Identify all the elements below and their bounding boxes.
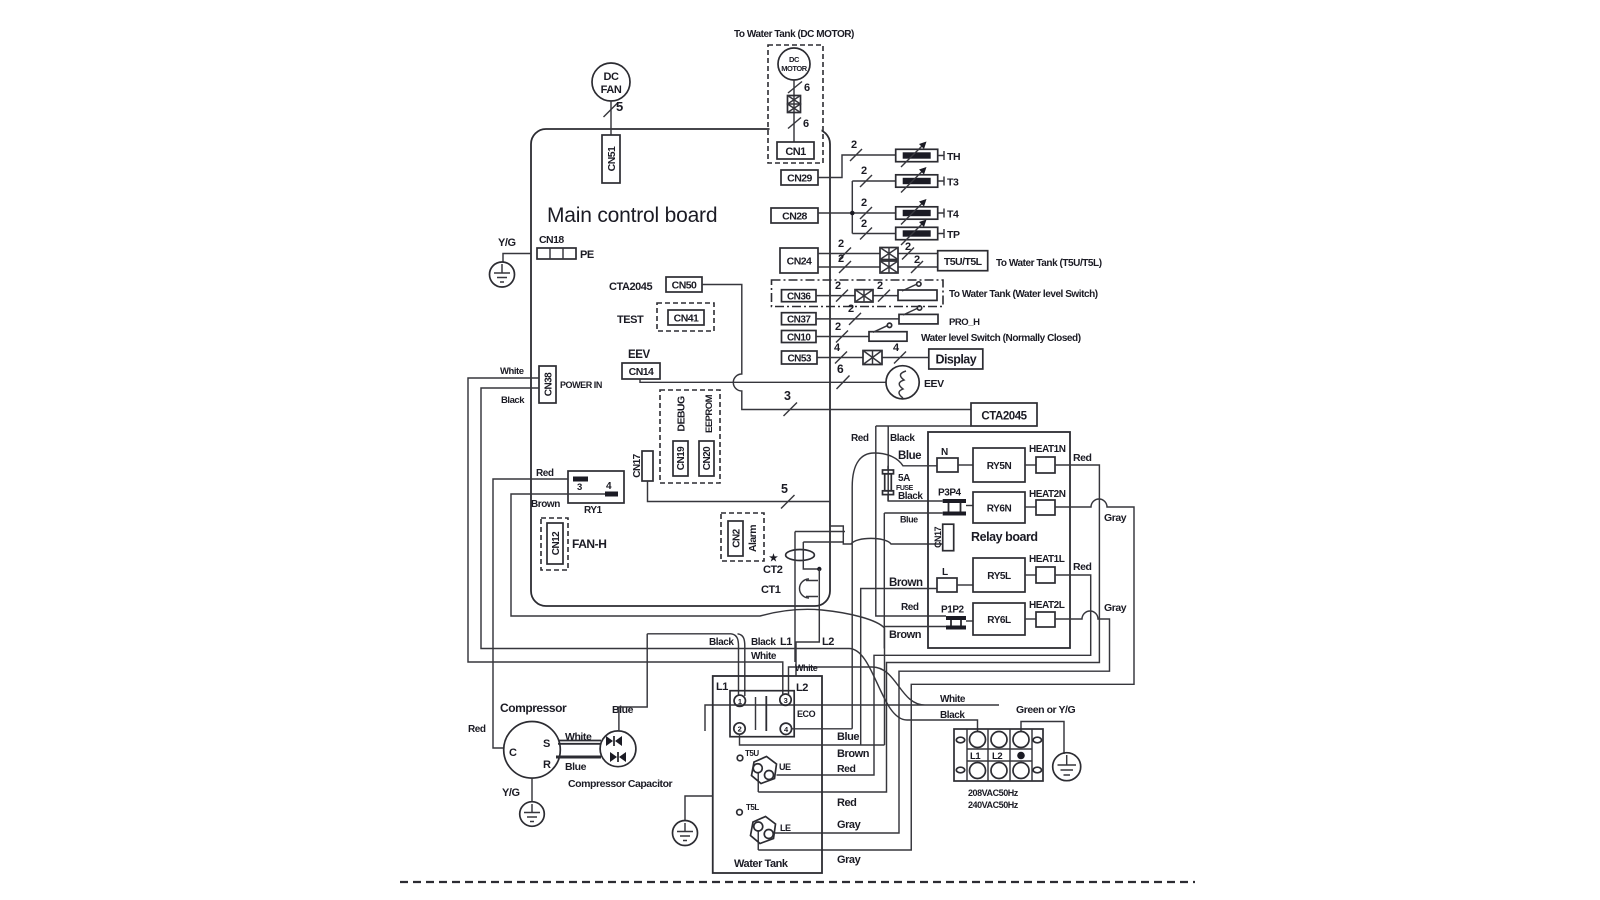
wire DC MOTOR to CN1 bbox=[793, 80, 795, 142]
connector CN36 bbox=[782, 290, 817, 303]
connector CN29 bbox=[781, 170, 818, 185]
wire CN24 upper to T5U bbox=[818, 253, 938, 255]
relay board outline bbox=[928, 432, 1070, 648]
connector CN12 (FAN-H) bbox=[541, 518, 568, 570]
svg-text:Water Tank: Water Tank bbox=[734, 858, 789, 870]
dashed page divider bbox=[400, 881, 1195, 883]
wire DC FAN to CN51 bbox=[610, 101, 612, 135]
wire RY1 pin4 brown to P1P2 (lower curve across bundle) bbox=[511, 494, 885, 745]
connector plug (water level switch) bbox=[855, 290, 873, 302]
svg-text:2: 2 bbox=[861, 165, 867, 177]
wire compressor R blue to capacitor bbox=[556, 756, 601, 759]
wire ECO4 blue bbox=[792, 728, 853, 730]
svg-text:Compressor: Compressor bbox=[500, 701, 567, 715]
svg-text:White: White bbox=[940, 694, 966, 705]
main control board outline bbox=[531, 129, 830, 606]
slash 2-wire mark bbox=[860, 228, 872, 240]
svg-text:4: 4 bbox=[606, 481, 612, 492]
terminal HEAT1L bbox=[1029, 554, 1065, 583]
connector P3P4 bbox=[938, 488, 966, 516]
wire HEAT1N red to tank UE bbox=[758, 465, 1099, 792]
svg-text:RY1: RY1 bbox=[584, 505, 603, 516]
svg-text:P1P2: P1P2 bbox=[941, 605, 965, 616]
svg-text:CN12: CN12 bbox=[551, 531, 562, 555]
connector CN18 bbox=[537, 234, 576, 259]
svg-text:6: 6 bbox=[837, 362, 844, 376]
svg-text:UE: UE bbox=[779, 762, 791, 772]
svg-text:Black: Black bbox=[898, 491, 923, 502]
svg-text:2: 2 bbox=[835, 280, 841, 292]
wire CN17 to relay board CN17 (5 wires) bbox=[648, 481, 943, 544]
connector CN17 (main board) bbox=[632, 451, 653, 481]
svg-text:FAN-H: FAN-H bbox=[572, 537, 606, 551]
svg-text:3: 3 bbox=[577, 482, 582, 493]
svg-text:Red: Red bbox=[901, 602, 919, 613]
slash 2-wire mark bbox=[850, 149, 862, 161]
heater element UE bbox=[752, 757, 777, 784]
slash 2-wire mark bbox=[878, 290, 890, 302]
slash 6-wire mark bbox=[788, 82, 802, 94]
svg-text:5: 5 bbox=[616, 99, 623, 114]
slash 2-wire mark bbox=[836, 290, 848, 302]
slash 2-wire mark bbox=[860, 175, 872, 187]
wire capacitor blue to L1 bus bbox=[619, 634, 647, 731]
DC FAN motor M1 bbox=[592, 63, 630, 101]
svg-text:2: 2 bbox=[905, 241, 911, 253]
svg-text:Gray: Gray bbox=[1104, 602, 1127, 614]
wire CT1 conductor bbox=[795, 532, 845, 663]
relay RY5L bbox=[973, 558, 1025, 592]
svg-text:RY6L: RY6L bbox=[987, 615, 1011, 626]
slash 5-wire bus mark bbox=[604, 103, 618, 117]
svg-text:2: 2 bbox=[877, 280, 883, 292]
svg-text:Brown: Brown bbox=[837, 748, 870, 760]
svg-text:EEV: EEV bbox=[628, 349, 650, 361]
wire RY5L to HEAT1L bbox=[1025, 574, 1036, 576]
sensor T5U bbox=[737, 755, 743, 761]
svg-text:P3P4: P3P4 bbox=[938, 488, 962, 499]
wire L1 bus to ECO terminals bbox=[647, 634, 745, 696]
svg-text:CN14: CN14 bbox=[629, 366, 654, 378]
wire L to RY5L bbox=[957, 584, 973, 586]
svg-text:CN19: CN19 bbox=[676, 446, 687, 470]
slash 4-wire mark bbox=[835, 352, 847, 364]
slash 2-wire mark bbox=[849, 313, 861, 325]
connector CN17 (relay board) bbox=[933, 524, 954, 551]
slash 6-wire mark bbox=[788, 118, 801, 129]
wire RY6N to HEAT2N bbox=[1025, 506, 1036, 508]
sensor T5L bbox=[737, 809, 743, 815]
svg-text:1: 1 bbox=[738, 697, 742, 706]
svg-text:Brown: Brown bbox=[531, 499, 560, 510]
svg-text:HEAT2N: HEAT2N bbox=[1029, 489, 1066, 500]
relay RY5N bbox=[973, 448, 1025, 482]
svg-text:5A: 5A bbox=[898, 473, 910, 484]
EEV coil bbox=[886, 366, 919, 399]
svg-text:Gray: Gray bbox=[837, 819, 862, 831]
svg-text:FAN: FAN bbox=[601, 84, 622, 96]
svg-text:POWER IN: POWER IN bbox=[560, 380, 602, 390]
thermistor TH bbox=[896, 142, 944, 168]
svg-text:208VAC50Hz: 208VAC50Hz bbox=[968, 788, 1019, 798]
svg-text:DC: DC bbox=[789, 55, 800, 64]
slash 5-wire mark bbox=[781, 495, 795, 509]
wire compressor S white to capacitor bbox=[558, 741, 601, 744]
svg-text:Green or Y/G: Green or Y/G bbox=[1016, 704, 1075, 716]
svg-text:2: 2 bbox=[738, 725, 742, 734]
svg-text:CTA2045: CTA2045 bbox=[609, 281, 652, 293]
ground (protective earth, left) bbox=[490, 262, 515, 287]
svg-text:DEBUG: DEBUG bbox=[676, 396, 688, 432]
connector CN50 bbox=[666, 277, 702, 292]
svg-text:White: White bbox=[500, 366, 524, 377]
DC MOTOR dashed enclosure bbox=[770, 122, 822, 136]
ground (compressor) bbox=[520, 802, 545, 827]
svg-text:T3: T3 bbox=[947, 177, 959, 189]
svg-text:2: 2 bbox=[838, 238, 844, 250]
connector CN19 bbox=[673, 396, 688, 476]
connector CN38 POWER IN bbox=[539, 366, 556, 403]
svg-text:Red: Red bbox=[851, 433, 869, 444]
svg-text:Water level Switch (Normally C: Water level Switch (Normally Closed) bbox=[921, 333, 1081, 344]
wire CN24 lower to T5L bbox=[818, 266, 938, 268]
wire ECO2 brown bbox=[740, 734, 885, 745]
svg-text:Black: Black bbox=[709, 637, 734, 648]
svg-text:LE: LE bbox=[780, 823, 791, 833]
svg-text:Black: Black bbox=[751, 637, 776, 648]
svg-text:240VAC50Hz: 240VAC50Hz bbox=[968, 800, 1019, 810]
compressor capacitor bbox=[600, 731, 636, 767]
svg-text:CN50: CN50 bbox=[672, 280, 697, 292]
connector CN19 DEBUG / CN20 EEPROM group bbox=[660, 390, 720, 483]
svg-text:2: 2 bbox=[914, 254, 920, 266]
svg-text:Compressor Capacitor: Compressor Capacitor bbox=[568, 778, 673, 790]
svg-text:T5U: T5U bbox=[745, 749, 759, 758]
fuse F1 5A bbox=[883, 466, 894, 501]
wire compressor to ground bbox=[531, 778, 533, 802]
svg-text:MOTOR: MOTOR bbox=[781, 64, 808, 73]
svg-text:RY6N: RY6N bbox=[987, 504, 1012, 515]
svg-text:Red: Red bbox=[837, 797, 856, 809]
connector CN41 bbox=[657, 303, 714, 331]
connector CN2 Alarm bbox=[721, 513, 764, 561]
connector CN1 bbox=[777, 142, 814, 159]
svg-text:Gray: Gray bbox=[837, 854, 862, 866]
wire CN37 to PRO_H switch bbox=[816, 318, 899, 320]
svg-text:Display: Display bbox=[935, 353, 976, 367]
wire CTA2045 red/black drop bbox=[876, 426, 971, 616]
wire RY6L to HEAT2L bbox=[1025, 618, 1036, 620]
power terminal block bbox=[954, 729, 1043, 781]
svg-text:CN20: CN20 bbox=[702, 446, 713, 470]
svg-text:To Water Tank (DC MOTOR): To Water Tank (DC MOTOR) bbox=[734, 29, 854, 40]
thermistor T3 bbox=[896, 167, 944, 193]
svg-text:L: L bbox=[942, 567, 948, 578]
svg-text:Red: Red bbox=[837, 763, 856, 775]
wire CN38 white to power terminal L1 row bbox=[468, 378, 783, 694]
wire RY5N to HEAT1N bbox=[1025, 464, 1036, 466]
switch water level (normally closed) bbox=[869, 323, 907, 341]
svg-text:CN36: CN36 bbox=[787, 292, 811, 303]
connector CN24 bbox=[780, 248, 818, 273]
wire HEAT2N gray to tank LE bbox=[758, 499, 1134, 850]
svg-text:Red: Red bbox=[468, 724, 486, 735]
svg-text:TP: TP bbox=[947, 229, 960, 241]
svg-text:3: 3 bbox=[784, 389, 791, 403]
wire HEAT1L red to tank UE bbox=[777, 575, 1091, 775]
svg-text:Relay board: Relay board bbox=[971, 530, 1038, 544]
wire CN50 to CTA2045 box (3 wires) bbox=[702, 285, 971, 410]
slash 2-wire mark bbox=[902, 248, 914, 260]
ground (power supply) bbox=[1053, 753, 1081, 781]
svg-text:2: 2 bbox=[835, 321, 841, 333]
connector CN20 bbox=[699, 394, 715, 476]
svg-text:CN41: CN41 bbox=[674, 313, 699, 325]
wire P1P2 to RY6L bbox=[966, 620, 973, 622]
connector plug (display) bbox=[863, 351, 882, 365]
svg-text:Blue: Blue bbox=[898, 450, 921, 462]
compressor motor bbox=[504, 722, 561, 779]
connector P1P2 bbox=[941, 605, 966, 630]
wire CN28 branch to T3 T4 TP bbox=[818, 181, 896, 234]
svg-text:Red: Red bbox=[1073, 452, 1092, 464]
node T5U/T5L bbox=[938, 251, 988, 271]
svg-text:Brown: Brown bbox=[889, 577, 923, 589]
wire RY1 pin3 red to compressor C bbox=[493, 479, 568, 748]
connector CN14 bbox=[622, 363, 660, 379]
svg-text:CN24: CN24 bbox=[787, 256, 812, 268]
slash 2-wire mark bbox=[860, 207, 872, 219]
svg-text:L1: L1 bbox=[970, 751, 981, 762]
svg-text:CTA2045: CTA2045 bbox=[981, 411, 1027, 423]
wire CT2 sense lead down bbox=[796, 569, 819, 676]
wire tank ground bbox=[685, 796, 713, 821]
slash 4-wire mark bbox=[894, 352, 906, 364]
svg-text:Alarm: Alarm bbox=[747, 525, 759, 552]
svg-text:Red: Red bbox=[1073, 561, 1092, 573]
svg-text:Black: Black bbox=[940, 710, 965, 721]
svg-text:Blue: Blue bbox=[612, 704, 634, 716]
slash 2-wire mark bbox=[836, 331, 848, 343]
terminal block ECO bbox=[730, 691, 794, 737]
svg-text:2: 2 bbox=[851, 139, 857, 151]
svg-text:Blue: Blue bbox=[900, 515, 918, 525]
slash 6-wire mark bbox=[837, 376, 850, 390]
connector CN53 bbox=[782, 351, 818, 365]
svg-text:White: White bbox=[795, 663, 818, 673]
slash 2-wire mark bbox=[839, 261, 851, 273]
current transformer CT2 bbox=[786, 542, 844, 571]
svg-text:2: 2 bbox=[848, 303, 854, 315]
connector plug lower (T5L) bbox=[880, 261, 898, 273]
svg-text:HEAT2L: HEAT2L bbox=[1029, 600, 1065, 611]
svg-text:R: R bbox=[543, 759, 551, 771]
svg-text:TH: TH bbox=[947, 151, 960, 163]
svg-text:White: White bbox=[751, 651, 777, 662]
terminal HEAT1N bbox=[1029, 444, 1066, 473]
svg-text:N: N bbox=[941, 447, 948, 458]
svg-text:Y/G: Y/G bbox=[502, 787, 520, 799]
connector pair (DC motor plug) bbox=[788, 96, 801, 113]
wire PE to ground bbox=[503, 254, 531, 263]
svg-text:CN17: CN17 bbox=[632, 453, 643, 477]
svg-text:CN37: CN37 bbox=[787, 315, 811, 326]
svg-text:HEAT1N: HEAT1N bbox=[1029, 444, 1066, 455]
svg-text:PRO_H: PRO_H bbox=[949, 317, 980, 328]
svg-text:2: 2 bbox=[838, 253, 844, 265]
wire CN29 to TH bbox=[818, 155, 896, 178]
svg-text:Black: Black bbox=[501, 395, 525, 406]
connector plug upper (T5U) bbox=[880, 248, 898, 260]
svg-text:CN2: CN2 bbox=[732, 528, 743, 547]
svg-text:CN1: CN1 bbox=[785, 146, 806, 158]
svg-text:L1: L1 bbox=[716, 681, 728, 693]
svg-text:Gray: Gray bbox=[1104, 512, 1127, 524]
svg-text:C: C bbox=[509, 747, 517, 759]
svg-text:CN53: CN53 bbox=[788, 354, 812, 365]
svg-text:L2: L2 bbox=[796, 682, 808, 694]
CN36 dash-dot enclosure bbox=[772, 280, 944, 307]
terminal L bbox=[937, 567, 957, 592]
terminal N bbox=[937, 447, 958, 472]
relay RY6N bbox=[973, 492, 1025, 523]
svg-text:TEST: TEST bbox=[617, 314, 644, 326]
svg-text:6: 6 bbox=[804, 82, 810, 94]
svg-text:S: S bbox=[543, 738, 550, 750]
svg-text:DC: DC bbox=[604, 71, 619, 83]
svg-text:CT1: CT1 bbox=[761, 584, 781, 596]
wire CN38 black to power terminal bbox=[481, 388, 978, 731]
svg-text:L2: L2 bbox=[822, 636, 834, 648]
svg-text:CN51: CN51 bbox=[606, 146, 618, 171]
node Display bbox=[929, 349, 983, 369]
svg-text:HEAT1L: HEAT1L bbox=[1029, 554, 1065, 565]
svg-text:2: 2 bbox=[861, 218, 867, 230]
switch PRO_H bbox=[899, 306, 938, 324]
svg-text:To Water Tank (Water level Swi: To Water Tank (Water level Switch) bbox=[949, 289, 1098, 300]
wire CN36 to water level switch bbox=[816, 295, 898, 297]
svg-text:2: 2 bbox=[861, 197, 867, 209]
wire N to RY5N bbox=[958, 464, 973, 466]
thermistor TP bbox=[896, 220, 944, 246]
svg-text:To Water Tank (T5U/T5L): To Water Tank (T5U/T5L) bbox=[996, 258, 1102, 269]
wire brown from tank ECO2 up to L bbox=[861, 589, 937, 746]
CTA2045 external box bbox=[971, 403, 1037, 426]
svg-text:Blue: Blue bbox=[837, 731, 859, 743]
wire P1P2 lower brown bbox=[885, 626, 947, 628]
connector CN28 bbox=[771, 208, 818, 223]
svg-text:CN38: CN38 bbox=[544, 372, 555, 396]
wire white branch to power block L2 bbox=[705, 667, 999, 731]
wire P3P4 to RY6N bbox=[966, 505, 973, 507]
svg-text:Blue: Blue bbox=[565, 761, 587, 773]
svg-text:CN10: CN10 bbox=[787, 332, 811, 343]
slash 2-wire mark bbox=[911, 261, 923, 273]
svg-text:★: ★ bbox=[769, 553, 778, 564]
slash 2-wire mark bbox=[839, 248, 851, 260]
svg-text:RY5L: RY5L bbox=[987, 571, 1011, 582]
svg-text:5: 5 bbox=[781, 482, 788, 496]
connector CN51 bbox=[602, 135, 620, 183]
svg-text:EEPROM: EEPROM bbox=[704, 394, 715, 433]
motor DC MOTOR bbox=[778, 48, 810, 80]
water tank outline bbox=[713, 676, 822, 873]
switch water level (tank) bbox=[898, 282, 937, 301]
svg-text:ECO: ECO bbox=[797, 709, 816, 719]
ground (water tank) bbox=[673, 821, 698, 846]
svg-text:CN29: CN29 bbox=[787, 173, 812, 185]
node junction bbox=[850, 211, 855, 216]
wire CN14 to EEV coil bbox=[640, 379, 886, 382]
terminal HEAT2L bbox=[1029, 600, 1065, 627]
svg-text:Brown: Brown bbox=[889, 629, 922, 641]
terminal HEAT2N bbox=[1029, 489, 1066, 515]
svg-text:L2: L2 bbox=[992, 751, 1002, 762]
connector CN37 bbox=[782, 313, 817, 326]
wire blue P3P4 lower bbox=[884, 513, 942, 649]
svg-text:CN17: CN17 bbox=[933, 527, 943, 548]
wire blue from tank ECO4 up to fuse and N bbox=[852, 453, 937, 729]
connector CN10 bbox=[782, 331, 817, 344]
svg-text:PE: PE bbox=[580, 249, 594, 261]
svg-text:RY5N: RY5N bbox=[987, 461, 1012, 472]
svg-text:T4: T4 bbox=[947, 209, 959, 221]
svg-text:T5L: T5L bbox=[746, 803, 759, 812]
slash 3-wire mark bbox=[784, 403, 798, 417]
svg-text:Y/G: Y/G bbox=[498, 237, 516, 249]
svg-text:EEV: EEV bbox=[924, 378, 944, 390]
svg-text:T5U/T5L: T5U/T5L bbox=[944, 256, 983, 268]
svg-text:CN28: CN28 bbox=[782, 211, 807, 223]
svg-text:Black: Black bbox=[890, 433, 915, 444]
thermistor T4 bbox=[896, 199, 944, 225]
svg-text:L1: L1 bbox=[780, 636, 792, 648]
svg-text:3: 3 bbox=[784, 696, 788, 705]
svg-text:Main control board: Main control board bbox=[547, 204, 717, 227]
current transformer CT1 bbox=[800, 579, 819, 598]
wire CN10 to NC switch bbox=[816, 336, 869, 338]
relay RY6L bbox=[973, 603, 1025, 635]
relay RY1 bbox=[568, 471, 624, 516]
heater element LE bbox=[751, 817, 776, 844]
svg-text:CN18: CN18 bbox=[539, 234, 564, 246]
svg-text:Red: Red bbox=[536, 468, 554, 479]
wire HEAT2L gray to tank LE bbox=[774, 611, 1110, 833]
wire CN53 to Display bbox=[817, 357, 929, 359]
svg-text:6: 6 bbox=[803, 118, 809, 130]
wire green to ground bbox=[1021, 722, 1064, 755]
svg-text:CT2: CT2 bbox=[763, 564, 783, 576]
